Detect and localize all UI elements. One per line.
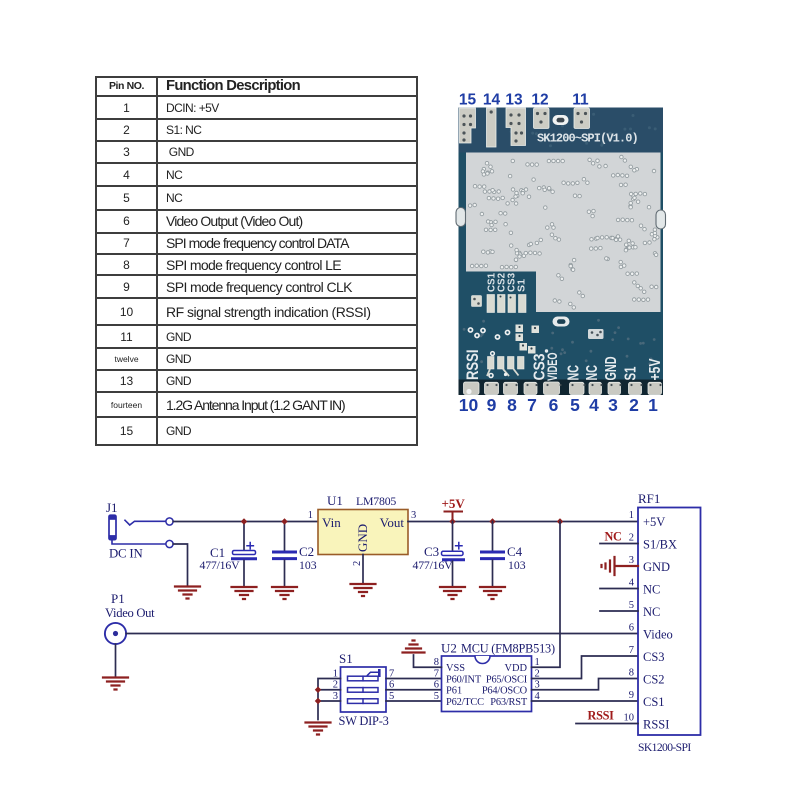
- pin 12 pad: [534, 108, 550, 129]
- svg-text:C2: C2: [299, 544, 314, 559]
- wire: U2 VDD to +5V rail: [532, 522, 561, 668]
- wire: RF1 pin2 NC stub: [600, 543, 638, 545]
- pin 11 pad: [574, 108, 590, 129]
- svg-text:P64/OSCO: P64/OSCO: [482, 686, 528, 697]
- component pad (white box pair): [588, 329, 604, 339]
- wire: U2 VSS to ground: [414, 655, 442, 667]
- MCU U2 FM8PB513: [442, 656, 532, 712]
- svg-text:9: 9: [629, 690, 634, 701]
- ground (C1): [232, 587, 257, 599]
- junction node (C4 on rail): [489, 518, 496, 525]
- capacitor C1: [233, 522, 256, 586]
- wire: U2 P65/OSCI to RF1 CS3: [532, 656, 639, 679]
- svg-text:3: 3: [411, 510, 416, 521]
- svg-text:7: 7: [434, 669, 439, 680]
- svg-text:+5V: +5V: [442, 496, 466, 511]
- capacitor C3: [442, 522, 464, 586]
- svg-text:P62/TCC: P62/TCC: [446, 697, 484, 708]
- svg-text:2: 2: [629, 533, 634, 544]
- jumper strips CS1 CS2 CS3 S1: [487, 295, 526, 313]
- svg-text:5: 5: [629, 600, 634, 611]
- junction node (C2 on rail): [281, 518, 288, 525]
- svg-text:6: 6: [434, 680, 439, 691]
- svg-text:S1: S1: [516, 279, 527, 292]
- svg-text:2: 2: [333, 680, 338, 691]
- svg-text:5: 5: [570, 395, 580, 415]
- svg-text:CS2: CS2: [643, 673, 665, 687]
- power +5V symbol: [442, 496, 466, 522]
- svg-text:LM7805: LM7805: [356, 494, 396, 508]
- svg-text:15: 15: [459, 92, 477, 109]
- svg-text:CS3: CS3: [643, 650, 665, 664]
- svg-text:3: 3: [333, 691, 338, 702]
- wire: J1 sleeve to ground: [173, 544, 187, 585]
- svg-text:S1/BX: S1/BX: [643, 538, 677, 552]
- via field (decorative): [468, 155, 659, 309]
- svg-text:+5V: +5V: [647, 358, 664, 381]
- schematic: [103, 491, 701, 754]
- svg-text:U2: U2: [441, 641, 457, 656]
- ground (S1): [306, 723, 331, 735]
- junction node (S1 pin2 bus): [315, 686, 322, 693]
- lower oval hole: [553, 317, 570, 327]
- junction node (VDD drop on rail): [557, 518, 564, 525]
- svg-text:NC: NC: [584, 365, 601, 381]
- wire: S1.7 to U2 P60/INT: [386, 678, 442, 680]
- wire: S1 pins 1-3 common bus: [318, 679, 341, 720]
- pin 15 pad: [460, 108, 476, 143]
- PCB board body: [459, 108, 664, 396]
- ground (U2 VSS, inverted): [403, 641, 425, 653]
- svg-text:CS1: CS1: [643, 695, 665, 709]
- ground (U1 pin2): [351, 584, 376, 596]
- svg-text:9: 9: [487, 395, 497, 415]
- wire: video net P1 to RF1 pin6: [126, 633, 638, 635]
- svg-text:VSS: VSS: [446, 663, 465, 674]
- regulator U1 LM7805: [318, 510, 408, 583]
- svg-text:U1: U1: [327, 493, 343, 508]
- left edge slot: [456, 208, 466, 227]
- svg-text:P65/OSCI: P65/OSCI: [486, 674, 528, 685]
- svg-text:RF1: RF1: [638, 491, 660, 506]
- svg-text:S1: S1: [623, 366, 640, 380]
- svg-text:SK1200~SPI(V1.0): SK1200~SPI(V1.0): [537, 132, 638, 146]
- wire: RF1 pin10 RSSI stub: [576, 723, 638, 725]
- svg-text:477/16V: 477/16V: [200, 558, 241, 572]
- svg-text:4: 4: [629, 578, 635, 589]
- bottom pin numbers 10..1: [459, 395, 658, 415]
- junction node (S1 pin3 bus): [315, 698, 322, 705]
- capacitor C2: [274, 522, 296, 586]
- second jumper row: [487, 351, 524, 378]
- top pin numbers 15 14 13 12 11: [459, 92, 589, 109]
- svg-text:13: 13: [505, 92, 523, 109]
- svg-text:5: 5: [434, 691, 439, 702]
- connector RF1 (SK1200-SPI): [638, 508, 701, 736]
- wire: U2 P63/RST to RF1 CS1: [532, 700, 639, 702]
- svg-text:10: 10: [624, 713, 635, 724]
- ground (P1): [103, 678, 128, 690]
- svg-text:RSSI: RSSI: [464, 350, 482, 381]
- svg-text:P60/INT: P60/INT: [446, 674, 482, 685]
- svg-text:NC: NC: [643, 583, 660, 597]
- top oval hole: [553, 115, 569, 125]
- ground (C4): [480, 587, 505, 599]
- svg-text:103: 103: [508, 558, 526, 572]
- pin 14 pad: [487, 108, 497, 147]
- svg-text:NC: NC: [566, 365, 583, 381]
- svg-text:7: 7: [527, 395, 537, 415]
- connector P1 (video out): [105, 623, 126, 676]
- svg-text:SK1200-SPI: SK1200-SPI: [638, 741, 691, 754]
- svg-text:Video Out: Video Out: [105, 606, 155, 620]
- svg-text:VIDEO: VIDEO: [545, 353, 560, 382]
- bottom pad holes: [466, 384, 661, 394]
- ground (C3): [440, 587, 465, 599]
- bottom pads pins 10..1: [464, 382, 662, 395]
- svg-text:GND: GND: [643, 560, 670, 574]
- wire: RF1 pin5 NC stub: [600, 610, 638, 612]
- scattered vias bottom-left: [468, 327, 511, 340]
- svg-text:GND: GND: [355, 524, 370, 552]
- wire: U2 P64/OSCO to RF1 CS2: [532, 679, 639, 690]
- small pads mid cluster: [516, 325, 540, 354]
- svg-text:3: 3: [629, 555, 634, 566]
- svg-text:P1: P1: [111, 591, 125, 606]
- svg-text:+5V: +5V: [643, 515, 665, 529]
- pin 13 pad: [506, 108, 526, 146]
- svg-text:P63/RST: P63/RST: [490, 697, 528, 708]
- svg-text:GND: GND: [603, 357, 620, 381]
- svg-text:11: 11: [572, 92, 589, 109]
- PCB module photo: [456, 92, 666, 416]
- junction node (+5V / C3 on rail): [449, 518, 456, 525]
- ground (C2): [272, 587, 297, 599]
- svg-text:Vin: Vin: [322, 515, 341, 530]
- ground (RF1 pin3, sideways): [602, 557, 639, 575]
- svg-text:1: 1: [648, 395, 658, 415]
- switch S1 SW DIP-3: [341, 667, 387, 712]
- capacitor C4: [482, 522, 504, 586]
- svg-text:DC IN: DC IN: [109, 547, 142, 561]
- svg-text:1: 1: [629, 510, 634, 521]
- svg-text:RSSI: RSSI: [588, 709, 615, 723]
- svg-text:MCU (FM8PB513): MCU (FM8PB513): [461, 642, 555, 656]
- wire: S1.5 to U2 P62/TCC: [386, 700, 442, 702]
- svg-text:1: 1: [308, 510, 313, 521]
- svg-text:2: 2: [629, 395, 639, 415]
- wire: S1.6 to U2 P61: [386, 689, 442, 691]
- svg-text:8: 8: [507, 395, 517, 415]
- jumper labels CS1 CS2 CS3 S1: [486, 273, 527, 292]
- svg-text:Video: Video: [643, 628, 673, 642]
- PCB ground-plane shield area: [466, 153, 661, 313]
- svg-text:NC: NC: [643, 605, 660, 619]
- svg-text:Vout: Vout: [380, 515, 405, 530]
- svg-text:7: 7: [629, 645, 634, 656]
- svg-text:C3: C3: [424, 544, 439, 559]
- svg-text:SW DIP-3: SW DIP-3: [339, 714, 389, 728]
- svg-text:1: 1: [535, 657, 540, 668]
- svg-text:S1: S1: [339, 651, 353, 666]
- ground (J1): [175, 587, 200, 599]
- svg-text:14: 14: [483, 92, 501, 109]
- svg-text:C4: C4: [507, 544, 523, 559]
- connector J1 (DC jack): [109, 515, 173, 547]
- PCB top band: [459, 108, 664, 153]
- svg-text:2: 2: [352, 561, 363, 566]
- svg-text:VDD: VDD: [504, 663, 527, 674]
- svg-text:8: 8: [434, 657, 439, 668]
- jumper pad S (left small): [472, 296, 482, 307]
- svg-text:103: 103: [299, 558, 317, 572]
- pin function table: [95, 76, 418, 446]
- svg-text:P61: P61: [446, 686, 462, 697]
- svg-text:J1: J1: [106, 500, 118, 515]
- right edge slot: [656, 210, 666, 229]
- wire: RF1 pin4 NC stub: [600, 588, 638, 590]
- svg-text:1: 1: [333, 669, 338, 680]
- junction node (C1 on rail): [241, 518, 248, 525]
- svg-text:12: 12: [531, 92, 548, 109]
- svg-text:3: 3: [608, 395, 618, 415]
- svg-text:477/16V: 477/16V: [413, 558, 454, 572]
- svg-text:4: 4: [589, 395, 599, 415]
- PCB bottom edge band: [459, 380, 664, 396]
- wire: +5V rail J1 to Vin: [173, 521, 318, 523]
- svg-text:6: 6: [629, 623, 634, 634]
- wire: +5V rail Vout to RF1 pin1: [408, 521, 638, 523]
- svg-text:10: 10: [459, 395, 479, 415]
- svg-text:6: 6: [549, 395, 559, 415]
- svg-text:RSSI: RSSI: [643, 718, 669, 732]
- svg-text:NC: NC: [605, 530, 622, 544]
- svg-text:8: 8: [629, 668, 634, 679]
